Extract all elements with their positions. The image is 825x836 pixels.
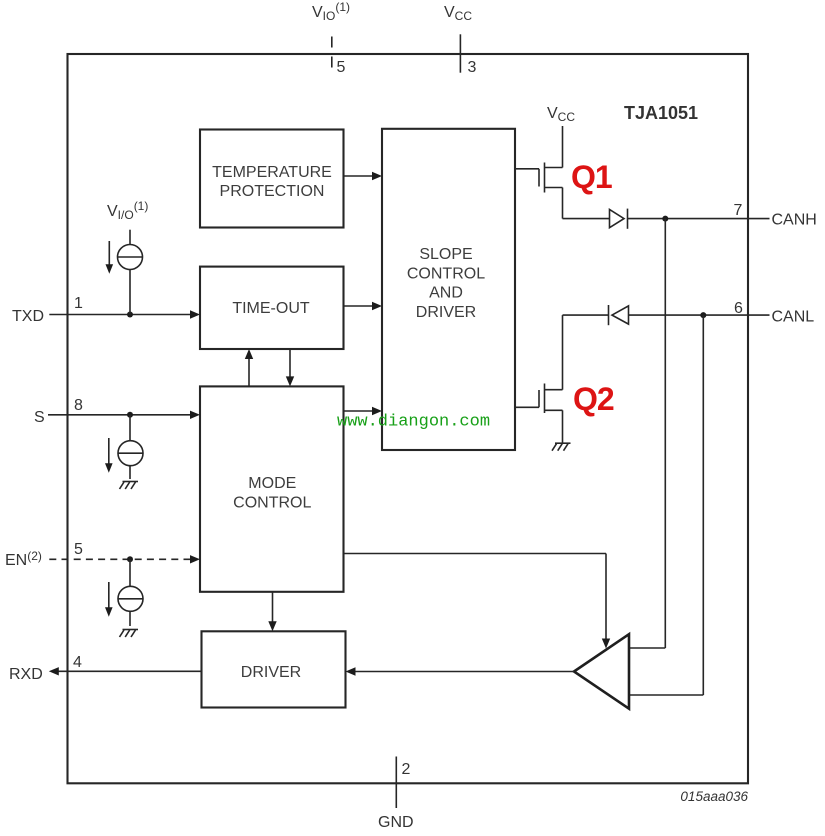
ground below S current source [120, 482, 139, 490]
pin 4 RXD [9, 654, 202, 683]
svg-text:Q1: Q1 [571, 159, 612, 195]
pin 1 TXD [12, 295, 200, 325]
block TEMPERATURE PROTECTION [200, 130, 344, 228]
diode D1 (CANH) [610, 209, 628, 229]
wire D2 to CANL pin 6 [629, 314, 770, 316]
wire receiver output to DRIVER (left arrow) [346, 667, 575, 675]
svg-text:CANL: CANL [772, 309, 815, 326]
block DRIVER [202, 631, 346, 707]
svg-text:DRIVER: DRIVER [241, 664, 301, 681]
pin 8 S [34, 397, 200, 426]
ground below Q2 [552, 443, 571, 451]
pin 5 VIO dashed stub [331, 37, 333, 74]
wire CANL junction down to receiver input [629, 315, 703, 695]
svg-text:PROTECTION: PROTECTION [220, 183, 325, 200]
svg-text:5: 5 [74, 541, 83, 558]
current source on EN pin [105, 559, 143, 626]
wire MODE CONTROL to DRIVER (down arrow) [268, 592, 276, 632]
svg-text:6: 6 [734, 300, 743, 317]
svg-text:S: S [34, 409, 45, 426]
wire MODE CONTROL to SLOPE [344, 407, 383, 415]
svg-text:CANH: CANH [772, 212, 817, 229]
wire MODE CONTROL to TIME-OUT (up arrow) [245, 349, 253, 386]
wire TEMP PROTECTION to SLOPE [344, 172, 383, 180]
wire MODE CONTROL to receiver enable (down arrow) [344, 554, 611, 649]
wire CANL to Q2 drain [562, 315, 564, 390]
transistor Q1 (PMOS high-side) [515, 163, 563, 219]
svg-text:SLOPE: SLOPE [419, 246, 472, 263]
transistor Q2 (NMOS low-side) [515, 384, 563, 443]
pin 5 EN (dashed) [5, 541, 200, 569]
svg-text:CONTROL: CONTROL [407, 265, 485, 282]
wire TIME-OUT to MODE CONTROL (down arrow) [286, 349, 294, 386]
wire TIME-OUT to SLOPE [344, 302, 383, 310]
svg-text:1: 1 [74, 295, 83, 312]
junction node S / current source [127, 412, 133, 418]
junction node CANH / receiver input [662, 216, 668, 222]
svg-text:2: 2 [402, 761, 411, 778]
block SLOPE CONTROL AND DRIVER [382, 129, 515, 450]
junction node EN / current source [127, 556, 133, 562]
svg-text:DRIVER: DRIVER [416, 304, 476, 321]
svg-text:4: 4 [73, 654, 82, 671]
svg-text:5: 5 [337, 59, 346, 76]
wire CANL horizontal [563, 314, 609, 316]
svg-text:CONTROL: CONTROL [233, 494, 311, 511]
junction node TXD / VIO current source [127, 312, 133, 318]
svg-text:Q2: Q2 [573, 381, 614, 417]
current source I(VIO) above TXD [106, 199, 149, 315]
svg-text:GND: GND [378, 814, 414, 831]
diode D2 (CANL, pointing left) [609, 305, 629, 325]
wire Q1 source to diode D1 [563, 218, 610, 220]
svg-text:015aaa036: 015aaa036 [680, 789, 748, 804]
svg-text:3: 3 [468, 59, 477, 76]
svg-text:TXD: TXD [12, 308, 44, 325]
current source on S pin [105, 415, 143, 479]
wire D1 to CANH pin 7 [628, 218, 770, 220]
pin 3 VCC stub [459, 34, 461, 72]
pin 2 GND stub [395, 757, 397, 809]
block MODE CONTROL [200, 386, 344, 591]
svg-text:TEMPERATURE: TEMPERATURE [212, 164, 332, 181]
svg-text:8: 8 [74, 397, 83, 414]
svg-text:TJA1051: TJA1051 [624, 103, 698, 123]
svg-text:TIME-OUT: TIME-OUT [232, 300, 310, 317]
IC outer boundary TJA1051 [68, 54, 749, 783]
svg-text:AND: AND [429, 285, 463, 302]
svg-text:www.diangon.com: www.diangon.com [337, 413, 490, 432]
junction node CANL / receiver input [700, 312, 706, 318]
block TIME-OUT [200, 267, 344, 349]
svg-text:MODE: MODE [248, 475, 296, 492]
receiver comparator U1 [574, 634, 629, 709]
svg-text:7: 7 [734, 202, 743, 219]
wire CANH junction down to receiver input [629, 219, 665, 648]
wire VCC to Q1 drain [562, 126, 564, 168]
svg-text:RXD: RXD [9, 666, 43, 683]
ground below EN current source [120, 630, 139, 638]
